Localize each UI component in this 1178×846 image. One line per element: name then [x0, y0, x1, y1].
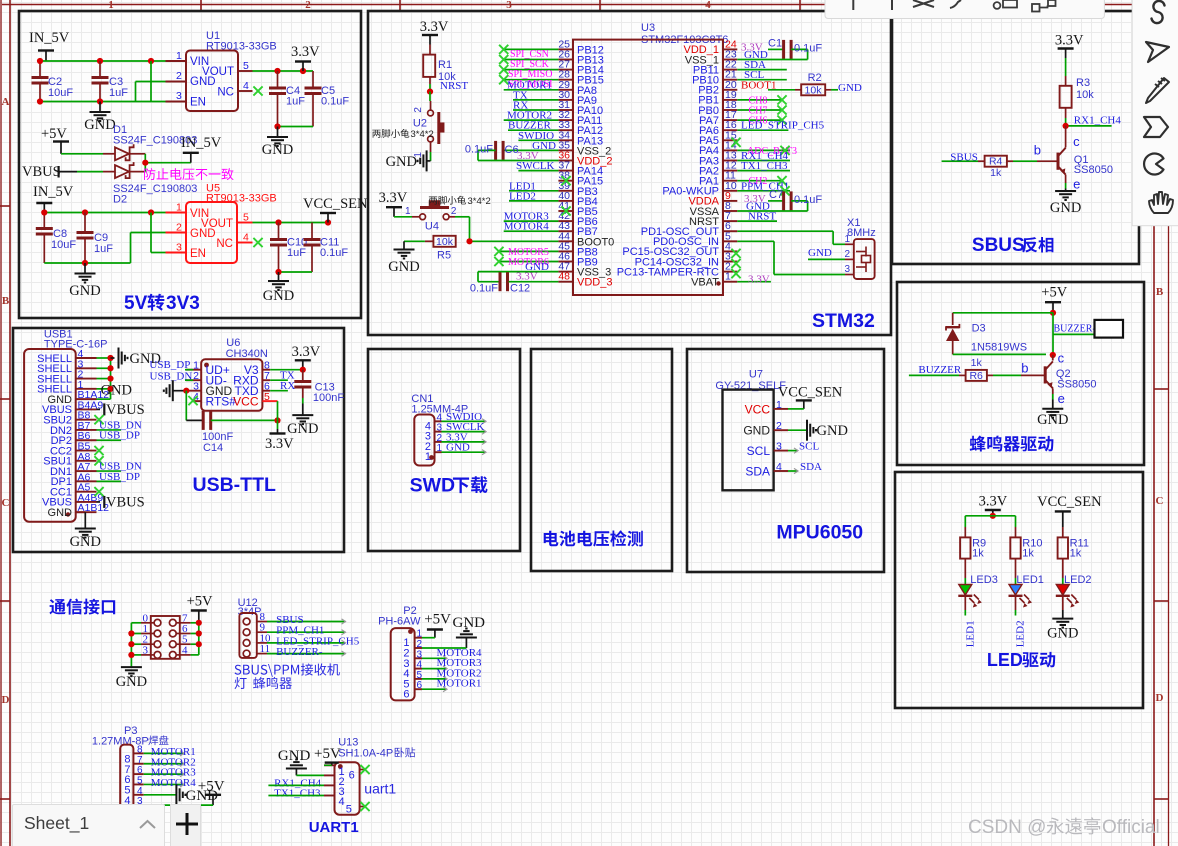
svg-text:3.3V: 3.3V — [420, 19, 449, 35]
svg-text:RX: RX — [280, 380, 295, 392]
svg-text:A: A — [2, 96, 10, 108]
svg-text:U3: U3 — [641, 22, 655, 34]
svg-text:uart1: uart1 — [364, 781, 396, 797]
net MOTOR1 P2 — [422, 678, 482, 692]
net SCL MPU — [788, 441, 819, 454]
ground C13 — [287, 404, 318, 437]
net GND pin47 — [478, 261, 558, 273]
svg-text:3: 3 — [176, 242, 182, 254]
svg-text:3: 3 — [176, 90, 182, 102]
svg-text:3*4*2: 3*4*2 — [411, 129, 434, 140]
svg-text:C12: C12 — [510, 283, 530, 295]
svg-text:1k: 1k — [972, 548, 984, 560]
ground U13 — [278, 748, 324, 775]
svg-text:+5V: +5V — [198, 779, 225, 795]
power flag +5V header — [187, 594, 213, 623]
ground U2 — [386, 150, 431, 171]
junction C3 bottom — [97, 98, 103, 104]
net MOTOR6 pin46 — [494, 257, 558, 268]
svg-text:GND: GND — [808, 247, 832, 259]
svg-text:8MHz: 8MHz — [847, 227, 876, 239]
diode D2 SS24F — [113, 162, 197, 205]
net RX U6 — [270, 380, 295, 392]
svg-text:3.3V: 3.3V — [979, 494, 1008, 510]
svg-text:VCC_SEN: VCC_SEN — [303, 196, 368, 212]
resistor R10 — [1010, 537, 1042, 584]
svg-text:1k: 1k — [1070, 548, 1082, 560]
svg-text:EN: EN — [190, 248, 206, 260]
svg-text:3.3V: 3.3V — [292, 344, 321, 360]
svg-text:5: 5 — [264, 391, 270, 403]
svg-text:e: e — [1058, 391, 1065, 406]
svg-text:R1: R1 — [438, 59, 452, 71]
svg-text:LED1: LED1 — [965, 620, 977, 647]
svg-text:1uF: 1uF — [286, 96, 305, 108]
net ADC_BAT3 pin14 — [737, 146, 797, 157]
svg-text:U4: U4 — [425, 221, 439, 233]
svg-text:6: 6 — [349, 770, 355, 782]
no-connect pin15 — [731, 138, 740, 147]
net flag VBUS row15 — [97, 494, 145, 510]
sheet frame left border — [0, 0, 10, 846]
connector CN1 1.25MM-4P — [411, 393, 468, 465]
svg-text:GND: GND — [101, 383, 132, 399]
svg-text:1k: 1k — [1022, 548, 1034, 560]
net MOTOR2 P2 — [422, 667, 482, 681]
capacitor C10 — [270, 223, 307, 273]
svg-text:VBUS: VBUS — [106, 494, 145, 510]
title SWD download — [410, 475, 488, 497]
svg-text:1k: 1k — [990, 167, 1002, 179]
net MOTOR1 pin29 — [504, 79, 559, 91]
net flag VBUS row6 — [97, 402, 145, 418]
junction lower 3 — [148, 209, 154, 215]
junction 3.3V stem — [300, 68, 306, 74]
capacitor C8 — [36, 228, 77, 263]
power flag 3.3V right — [292, 344, 321, 370]
power flag IN_5V (lower) — [33, 184, 74, 213]
wire header left bus — [128, 623, 141, 667]
svg-text:2: 2 — [776, 420, 782, 432]
resistor R4 — [978, 156, 1058, 179]
power flag 3.3V (BOOT0) — [379, 190, 408, 217]
no-connect CC2 — [94, 446, 103, 455]
svg-text:b: b — [1034, 142, 1041, 157]
svg-text:VOUT: VOUT — [202, 66, 234, 78]
diode D3 1N5819WS — [946, 313, 1053, 355]
svg-text:LED2: LED2 — [509, 190, 536, 202]
svg-text:GND: GND — [69, 283, 100, 299]
net MOTOR3 P2 — [422, 657, 482, 671]
ground USB1 GND pin — [70, 512, 101, 550]
junction at C2 top — [37, 58, 43, 64]
no-connect RTS# — [188, 396, 197, 405]
svg-text:USB_DP: USB_DP — [99, 471, 140, 483]
junction V3 — [300, 367, 306, 373]
svg-text:5: 5 — [137, 775, 143, 786]
svg-text:100nF: 100nF — [313, 392, 344, 404]
new sheet button — [170, 804, 202, 846]
svg-text:3V3: 3V3 — [166, 293, 200, 314]
connector U12 3x4P — [238, 597, 271, 658]
svg-text:B: B — [1156, 286, 1164, 298]
svg-text:GND: GND — [48, 507, 73, 519]
net MOTOR2 pin32 — [504, 110, 559, 122]
wire cap bottoms U1 — [278, 126, 314, 128]
net GND pin8 — [737, 201, 807, 213]
svg-text:U2: U2 — [413, 118, 427, 130]
connector USB1 TYPE-C-16P — [24, 329, 109, 522]
net TX1_CH3 pin12 — [737, 160, 790, 172]
net SWCLK CN1 — [442, 421, 487, 434]
wire VBUS to D2 — [77, 171, 115, 173]
svg-text:VCC_SEN: VCC_SEN — [1037, 494, 1102, 510]
resistor R5 — [404, 236, 456, 261]
net TX U6 — [270, 370, 295, 382]
svg-text:10k: 10k — [1076, 89, 1094, 101]
svg-text:4: 4 — [776, 461, 782, 473]
svg-text:IN_5V: IN_5V — [33, 184, 74, 200]
svg-text:C: C — [1156, 495, 1164, 507]
svg-text:NC: NC — [217, 87, 234, 99]
svg-text:SS8050: SS8050 — [1057, 378, 1096, 390]
net SWCLK pin37 — [516, 160, 558, 172]
net TX pin30 — [513, 89, 558, 101]
svg-text:1uF: 1uF — [109, 87, 128, 99]
svg-text:1: 1 — [844, 234, 850, 245]
caption SBUS PPM receiver — [235, 663, 340, 689]
svg-text:USB-TTL: USB-TTL — [193, 474, 276, 496]
no-connect SBU2 — [94, 415, 103, 424]
net USB_DP row13 — [97, 471, 140, 483]
wire +5V to D1 — [61, 153, 115, 155]
svg-text:1: 1 — [405, 206, 411, 217]
svg-text:e: e — [1073, 177, 1080, 192]
net 3.3V CN1 — [442, 431, 487, 444]
svg-text:C: C — [2, 497, 10, 509]
net RX1_CH4 out — [1066, 115, 1122, 127]
wire VOUT 3.3V — [253, 71, 314, 88]
net SDA pin22 — [737, 59, 787, 71]
row label C right — [1156, 495, 1164, 507]
svg-text:+5V: +5V — [187, 594, 213, 610]
power flag IN_5V (mid) — [181, 135, 222, 163]
IC U3 pins — [558, 38, 737, 288]
net BOOT1 resistor R2 — [741, 72, 862, 97]
svg-text:GND: GND — [388, 259, 419, 275]
svg-text:GND: GND — [386, 154, 417, 170]
svg-text:4: 4 — [182, 644, 188, 656]
capacitor C13 — [294, 370, 344, 404]
block frame battery voltage — [531, 349, 672, 571]
op-amp U1 regulator RT9013 — [166, 30, 277, 111]
row label D left — [2, 694, 10, 706]
svg-text:IN_5V: IN_5V — [29, 30, 70, 46]
annotation prevent voltage mismatch — [144, 168, 234, 180]
svg-text:0.1uF: 0.1uF — [320, 247, 348, 259]
svg-text:VBAT: VBAT — [691, 277, 719, 289]
connector U13 SH1.0A-4P — [324, 737, 415, 816]
svg-text:CSDN @: CSDN @ — [968, 817, 1046, 838]
net USB_DN row8 — [97, 419, 142, 431]
svg-text:Official: Official — [1102, 817, 1160, 838]
title UART1 — [309, 819, 359, 836]
svg-text:5V: 5V — [124, 293, 148, 314]
column label 3 — [506, 0, 512, 11]
svg-text:C14: C14 — [203, 442, 223, 454]
net RX pin31 — [513, 100, 558, 112]
svg-text:IN_5V: IN_5V — [181, 135, 222, 151]
svg-text:3*4P: 3*4P — [238, 606, 262, 618]
svg-text:D2: D2 — [113, 194, 127, 206]
column label 2 — [305, 0, 311, 11]
sheet tab bar — [12, 804, 165, 846]
svg-text:0.1uF: 0.1uF — [465, 143, 493, 155]
net USB_DP U6 — [149, 359, 193, 371]
right toolbar panel — [1132, 0, 1178, 226]
svg-text:7: 7 — [137, 755, 143, 766]
resistor R3 — [1060, 58, 1095, 126]
svg-text:1: 1 — [176, 202, 182, 214]
junction collector D3 — [1050, 352, 1056, 358]
net flag VBUS (left) — [22, 164, 77, 180]
svg-text:NRST: NRST — [748, 211, 776, 223]
svg-text:2: 2 — [413, 107, 424, 113]
svg-text:4: 4 — [243, 232, 249, 244]
svg-text:0.1uF: 0.1uF — [794, 42, 822, 54]
wire OSC_OUT pin6 — [737, 231, 845, 244]
svg-text:3.3V: 3.3V — [1055, 33, 1084, 49]
title battery voltage detect — [544, 530, 643, 546]
svg-text:10uF: 10uF — [51, 239, 76, 251]
svg-text:GND: GND — [1047, 626, 1078, 642]
svg-text:c: c — [1073, 134, 1080, 149]
power flag VCC_SEN — [303, 196, 368, 223]
net SPI_MISO pin27 — [499, 65, 558, 80]
power flag +5V U13 — [314, 746, 341, 765]
net MOTOR4 P3 — [144, 777, 197, 789]
svg-text:3.3V: 3.3V — [516, 271, 538, 283]
capacitor C2 — [32, 61, 101, 102]
svg-text:b: b — [1021, 361, 1028, 376]
resistor R9 — [960, 537, 986, 584]
svg-text:0.1uF: 0.1uF — [321, 96, 349, 108]
power flag 3.3V LED — [979, 494, 1008, 516]
net CH2 pin11 — [737, 176, 786, 187]
ground MPU pin2 — [788, 420, 848, 441]
net CH8 pin19 — [737, 95, 786, 106]
junction C4 top — [274, 68, 280, 74]
net MOTOR5 pin45 — [494, 247, 558, 258]
net PPM_CH1 U12 — [267, 625, 346, 637]
LED LED1 blue — [1009, 574, 1044, 616]
net MOTOR4 pin43 — [504, 221, 559, 233]
svg-text:LED3: LED3 — [970, 574, 998, 586]
ground R5 — [388, 241, 419, 275]
net CH7 pin18 — [737, 105, 786, 116]
svg-text:10k: 10k — [436, 236, 454, 248]
svg-text:2: 2 — [844, 249, 850, 260]
svg-text:1k: 1k — [971, 357, 983, 369]
net NRST pin7 — [737, 211, 777, 223]
svg-text:LED: LED — [987, 650, 1023, 670]
net SWDIO pin34 — [518, 130, 558, 142]
power flag +5V P3 — [144, 779, 225, 806]
net MOTOR3 pin42 — [504, 211, 559, 223]
svg-text:GND: GND — [116, 674, 147, 690]
push button U2 — [372, 92, 443, 158]
junction C2 bottom — [37, 98, 43, 104]
net LED1 vertical — [965, 620, 977, 647]
power flag +5V — [41, 126, 69, 154]
sheet frame right border — [1154, 0, 1169, 846]
svg-text:2: 2 — [176, 70, 182, 82]
svg-text:4: 4 — [137, 786, 143, 797]
net 3.3V pin24 with C1 — [741, 37, 822, 59]
junction VCC_SEN stem — [325, 219, 331, 225]
block frame MPU6050 — [687, 349, 884, 572]
block frame SBUS inverter — [892, 11, 1139, 264]
svg-text:B: B — [2, 295, 10, 307]
no-connect pin2 — [731, 269, 740, 278]
net 3.3V pin1 — [737, 274, 771, 286]
svg-text:D3: D3 — [972, 323, 986, 335]
IC U7 GY-521 module — [715, 369, 788, 491]
wire VIN net lower — [44, 213, 165, 229]
net 3.3V pin9 with C7 — [744, 189, 822, 211]
net SBUS input — [942, 152, 978, 164]
title 5V to 3V3 — [124, 293, 200, 314]
connector P2 PH-6AW — [378, 605, 422, 701]
svg-text:USB_DP: USB_DP — [149, 359, 190, 371]
title buzzer driver — [970, 436, 1054, 452]
junction at EN drop — [148, 58, 154, 64]
svg-text:1: 1 — [425, 451, 431, 463]
svg-text:VCC_SEN: VCC_SEN — [778, 385, 843, 401]
net TX1_CH3 U13 — [268, 788, 324, 800]
junction 3.3V LED — [990, 513, 996, 519]
svg-text:C7: C7 — [769, 189, 783, 201]
wire V3 net — [270, 369, 303, 371]
ground Q2 — [1037, 388, 1068, 428]
svg-text:RX1_CH4: RX1_CH4 — [1074, 115, 1122, 127]
svg-text:GND: GND — [1037, 412, 1068, 428]
net SPI_CSN pin25 — [499, 45, 558, 60]
svg-text:1: 1 — [108, 0, 114, 11]
svg-text:GND: GND — [287, 421, 318, 437]
net SWDIO CN1 — [442, 411, 487, 424]
title SBUS inverter — [972, 235, 1054, 256]
net GND crystal pin2 — [808, 247, 845, 259]
net RX1_CH4 pin13 — [737, 150, 790, 162]
junction caps gnd — [274, 123, 280, 129]
ground P2 pin2 — [422, 615, 485, 648]
junction lower 1 — [41, 209, 47, 215]
svg-text:GND: GND — [263, 288, 294, 304]
junction U6 gnd — [183, 388, 189, 394]
wire diode join — [145, 154, 191, 172]
junction caps gnd lower — [275, 269, 281, 275]
svg-text:USB_DP: USB_DP — [99, 430, 140, 442]
junction C9 bottom — [82, 260, 88, 266]
capacitor C9 — [77, 213, 114, 264]
ground SHELL — [111, 348, 161, 369]
net BUZZER input — [909, 364, 962, 376]
svg-text:SWCLK: SWCLK — [516, 160, 555, 172]
no-connect SBU1 — [94, 456, 103, 465]
title MPU6050 — [776, 521, 863, 543]
svg-text:3.3V: 3.3V — [291, 44, 320, 60]
crystal X1 8MHz — [844, 217, 875, 279]
svg-text:R5: R5 — [437, 249, 451, 261]
no-connect pin41 — [561, 206, 570, 215]
svg-text:+5V: +5V — [1041, 284, 1067, 300]
title STM32 — [812, 310, 875, 332]
connector P3 1.27MM-8P — [92, 725, 169, 840]
wire header right bus — [191, 620, 202, 655]
wire GND rail — [40, 61, 166, 102]
transistor Q2 SS8050 — [1021, 351, 1096, 406]
net BUZZER- U12 — [267, 646, 346, 658]
svg-text:SBUS: SBUS — [972, 235, 1025, 256]
net MOTOR4 P2 — [422, 647, 482, 661]
net RX1_CH4 U13 — [268, 777, 324, 789]
ground under C3 — [84, 102, 115, 134]
connector header 2x4 — [141, 612, 191, 659]
svg-text:D: D — [1156, 692, 1164, 704]
net LED1 pin39 — [509, 180, 558, 192]
svg-text:GND: GND — [743, 424, 770, 438]
svg-text:NC: NC — [216, 238, 233, 250]
net SDA MPU — [788, 461, 822, 474]
svg-text:UART1: UART1 — [309, 819, 359, 836]
no-connect pin 4 U1 — [253, 86, 262, 95]
row label A left — [2, 96, 10, 108]
capacitor C3 — [92, 76, 129, 102]
svg-text:SDA: SDA — [800, 461, 822, 473]
block frame STM32 — [368, 11, 891, 335]
svg-text:4: 4 — [339, 796, 345, 808]
block frame buzzer driver — [897, 282, 1144, 465]
svg-text:GND: GND — [70, 534, 101, 550]
svg-text:VCC: VCC — [233, 395, 259, 409]
svg-text:0.1uF: 0.1uF — [794, 194, 822, 206]
net LED_STRIP_CH5 U12 — [267, 635, 360, 647]
diode D1 SS24F — [113, 124, 197, 160]
svg-text:+5V: +5V — [314, 746, 341, 762]
svg-text:SDA: SDA — [745, 465, 770, 479]
svg-text:GND: GND — [838, 82, 862, 94]
svg-text:MOTOR4: MOTOR4 — [504, 221, 550, 233]
svg-text:VDD_3: VDD_3 — [577, 277, 612, 289]
svg-text:GND: GND — [453, 615, 486, 631]
svg-text:3: 3 — [143, 644, 149, 656]
wire VIN net top — [40, 61, 172, 77]
junction diode node — [142, 160, 148, 166]
junction at C3 top — [97, 58, 103, 64]
block frame SWD — [368, 349, 520, 551]
net GND pin35 with C6 — [465, 140, 559, 161]
no-connect pin 4 U5 — [253, 238, 262, 247]
net SBUS U12 — [267, 614, 346, 626]
net MOTOR3 P3 — [144, 767, 197, 779]
svg-text:1uF: 1uF — [94, 243, 113, 255]
row label B right — [1156, 286, 1164, 298]
svg-text:6: 6 — [137, 765, 143, 776]
wire SHELL bus — [97, 355, 114, 399]
ground header — [116, 667, 147, 690]
capacitor C14 — [186, 391, 277, 454]
